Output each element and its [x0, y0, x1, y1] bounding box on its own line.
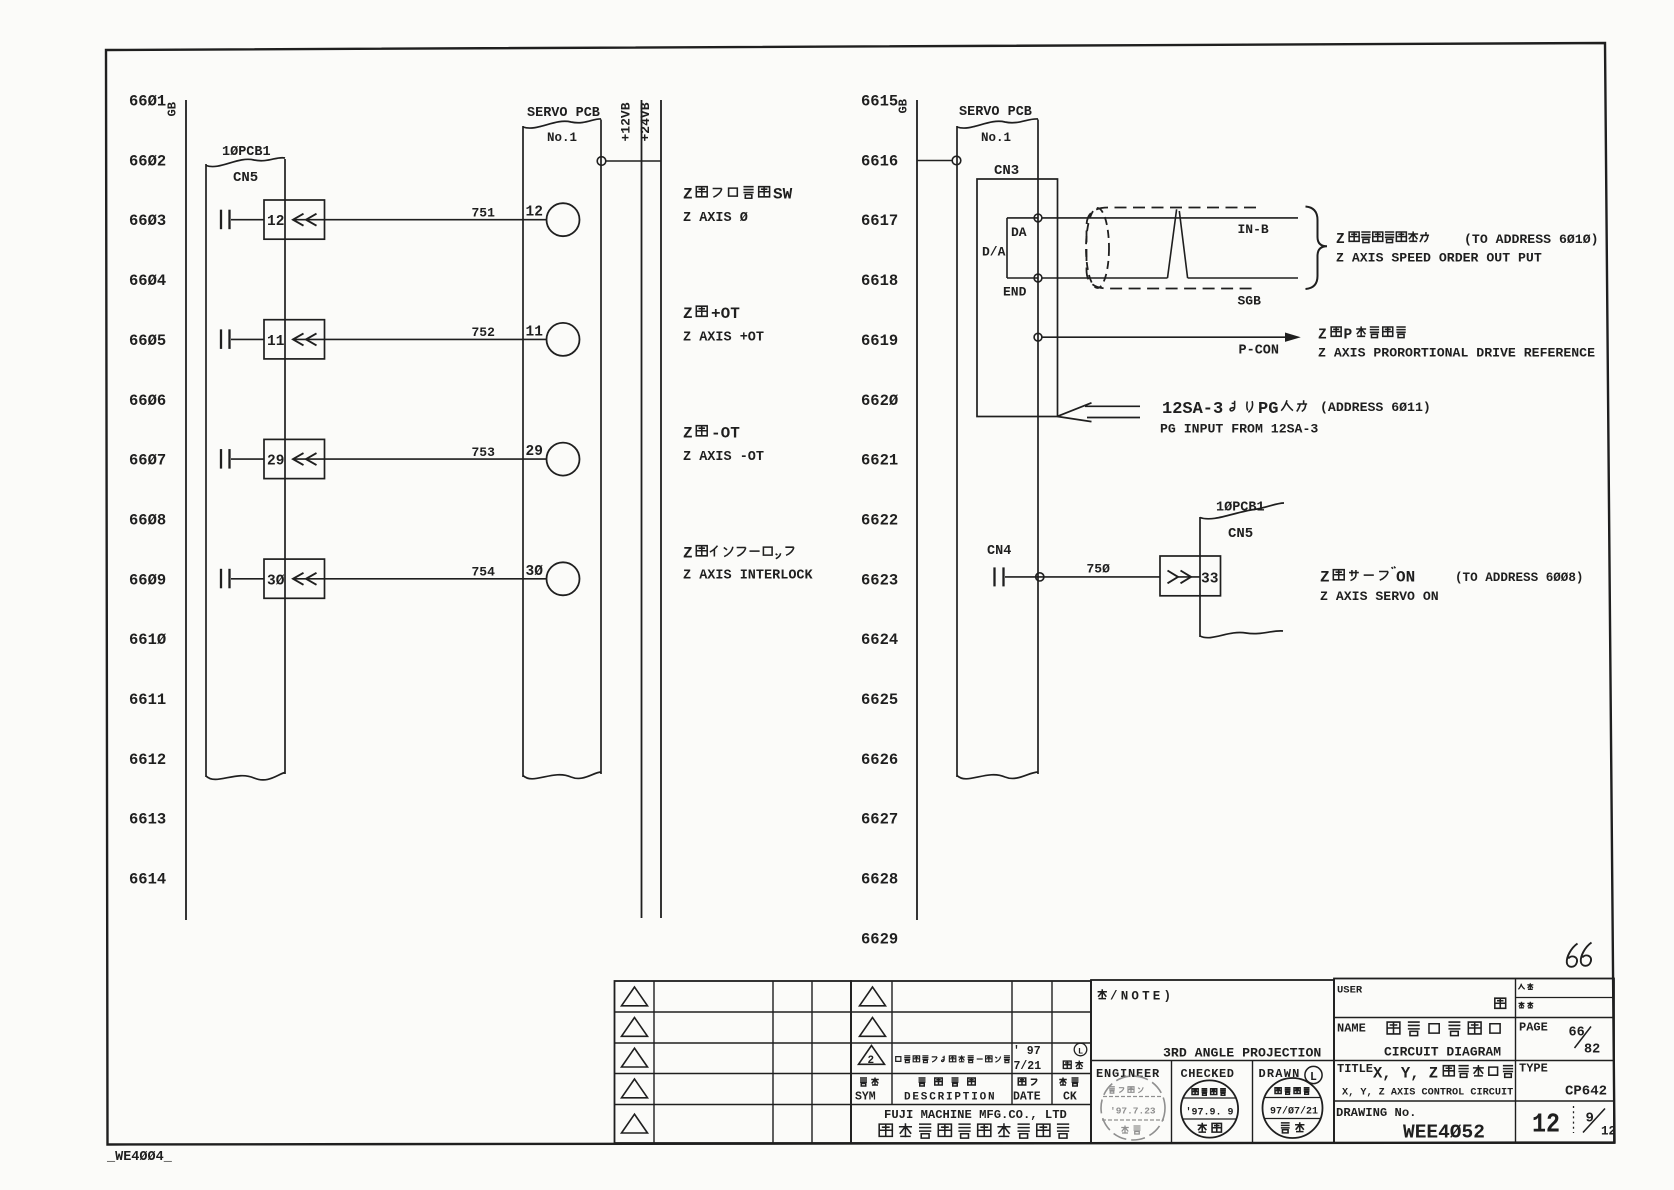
- wire GB bus right: [916, 100, 918, 920]
- svg-text:752: 752: [472, 325, 496, 340]
- sender box pin 33 on CN5: [1160, 556, 1221, 596]
- contact CN4 (6623): [993, 567, 995, 586]
- pin P-CON (6619): [1034, 333, 1042, 341]
- svg-text:L: L: [1078, 1047, 1083, 1057]
- svg-text:_WE4ØØ4_: _WE4ØØ4_: [106, 1150, 173, 1165]
- wire 753 to servo pcb: [293, 458, 547, 460]
- user / name / title / drawing cells: [1334, 979, 1614, 1144]
- svg-text:L: L: [1310, 1071, 1317, 1084]
- svg-text:PAGE: PAGE: [1519, 1021, 1548, 1035]
- chevron arrows << 751: [293, 214, 317, 226]
- svg-text:END: END: [1003, 285, 1027, 300]
- svg-text:6616: 6616: [861, 152, 898, 170]
- svg-text:CN5: CN5: [233, 170, 258, 186]
- svg-text:Z AXIS INTERLOCK: Z AXIS INTERLOCK: [683, 569, 814, 584]
- servo pcb terminal circle 11: [547, 323, 580, 356]
- svg-text:6612: 6612: [129, 751, 166, 769]
- title block revision table (right): [851, 981, 1091, 1143]
- svg-text:CN5: CN5: [1228, 526, 1253, 542]
- svg-text:+OT: +OT: [711, 305, 740, 323]
- svg-text:3Ø: 3Ø: [526, 564, 544, 580]
- receiver box pin 12 on CN5: [264, 200, 325, 239]
- svg-text:WEE4Ø52: WEE4Ø52: [1403, 1122, 1485, 1144]
- svg-text:6617: 6617: [861, 212, 898, 230]
- wire 752 to servo pcb: [293, 338, 547, 340]
- svg-text:3Ø: 3Ø: [267, 573, 285, 589]
- revision triangle: [622, 1018, 648, 1037]
- svg-text:6614: 6614: [129, 871, 166, 889]
- svg-text:(TO ADDRESS 6ØØ8): (TO ADDRESS 6ØØ8): [1455, 571, 1583, 585]
- node row 6616: [952, 156, 961, 165]
- svg-text:6624: 6624: [861, 631, 898, 649]
- svg-text:(ADDRESS 6Ø11): (ADDRESS 6Ø11): [1320, 400, 1431, 415]
- svg-text:Z AXIS -OT: Z AXIS -OT: [683, 450, 764, 465]
- revision triangle: [622, 987, 648, 1006]
- svg-text:12: 12: [1532, 1111, 1560, 1141]
- svg-text:66Ø5: 66Ø5: [129, 332, 166, 350]
- svg-text:6626: 6626: [861, 751, 898, 769]
- svg-text:6629: 6629: [861, 930, 898, 948]
- svg-text:Z: Z: [1318, 328, 1327, 344]
- revision triangle: [860, 1018, 886, 1037]
- revision triangle 2: [859, 1046, 885, 1065]
- svg-text:No.1: No.1: [981, 131, 1011, 145]
- connector 10PCB1 CN5 box (left): [206, 158, 285, 167]
- svg-text:1ØPCB1: 1ØPCB1: [1216, 501, 1265, 516]
- receiver box pin 11 on CN5: [264, 320, 325, 359]
- svg-text:TYPE: TYPE: [1519, 1062, 1548, 1076]
- approval cells: [1171, 1061, 1173, 1144]
- wire contact to box 752: [231, 338, 264, 340]
- servo pcb terminal circle 29: [547, 443, 580, 476]
- svg-text:TITLE: TITLE: [1337, 1062, 1373, 1076]
- svg-text:6615: 6615: [861, 93, 898, 111]
- servo pcb terminal circle 12: [547, 203, 580, 236]
- svg-text:6622: 6622: [861, 512, 898, 530]
- revision 2 description (kanji small): [896, 1057, 901, 1062]
- revision 2 CK stamp: [1074, 1043, 1087, 1056]
- contact (10PCB1 side) row 6605: [220, 329, 222, 349]
- svg-text:6619: 6619: [861, 332, 898, 350]
- svg-text:D/A: D/A: [982, 245, 1006, 260]
- svg-text:DATE: DATE: [1013, 1091, 1041, 1104]
- svg-text:IN-B: IN-B: [1238, 222, 1269, 237]
- svg-text:6621: 6621: [861, 452, 898, 470]
- wire contact to box 754: [231, 578, 264, 580]
- svg-text:Z AXIS PRORORTIONAL DRIVE REFE: Z AXIS PRORORTIONAL DRIVE REFERENCE: [1318, 346, 1595, 361]
- contact (10PCB1 side) row 6607: [220, 449, 222, 469]
- row header DESCRIPTION: [919, 1078, 926, 1086]
- svg-text:11: 11: [526, 324, 544, 340]
- svg-text:' 97: ' 97: [1013, 1045, 1041, 1058]
- svg-text:6623: 6623: [861, 571, 898, 589]
- wire 750: [1005, 576, 1160, 578]
- svg-text:CP642: CP642: [1565, 1084, 1607, 1100]
- revision triangle: [860, 987, 886, 1006]
- svg-text:X, Y, Z AXIS CONTROL CIRCUIT: X, Y, Z AXIS CONTROL CIRCUIT: [1342, 1088, 1513, 1099]
- stamp DRAWN: [1263, 1078, 1323, 1138]
- svg-text:FUJI MACHINE MFG.CO., LTD: FUJI MACHINE MFG.CO., LTD: [884, 1108, 1067, 1122]
- chevron arrows << 752: [293, 333, 317, 345]
- svg-text:751: 751: [472, 206, 496, 221]
- connector CN3 box: [977, 179, 1058, 417]
- svg-text:-OT: -OT: [711, 425, 740, 443]
- svg-text:2: 2: [868, 1055, 875, 1067]
- line-number column 6601-6614: [129, 93, 166, 889]
- svg-text:6627: 6627: [861, 811, 898, 829]
- svg-text:DA: DA: [1011, 225, 1027, 240]
- title kanji: electric circuit diagram: [1387, 1022, 1400, 1034]
- svg-text:USER: USER: [1337, 985, 1363, 997]
- svg-text:66Ø7: 66Ø7: [129, 452, 166, 470]
- svg-text:CHECKED: CHECKED: [1181, 1067, 1235, 1081]
- svg-text:DRAWING No.: DRAWING No.: [1336, 1106, 1416, 1120]
- receiver box pin 29 on CN5: [264, 439, 325, 478]
- line-number column 6615-6629: [861, 93, 898, 949]
- circled L mark: [1305, 1066, 1322, 1083]
- svg-text:CK: CK: [1063, 1091, 1077, 1104]
- svg-text:X, Y, Z: X, Y, Z: [1373, 1065, 1438, 1083]
- svg-text:6618: 6618: [861, 272, 898, 290]
- pin END (6618): [1034, 274, 1042, 282]
- svg-text:SERVO PCB: SERVO PCB: [527, 106, 600, 121]
- revision triangle: [622, 1048, 648, 1067]
- pin DA (6617): [1034, 214, 1042, 222]
- svg-text:(TO ADDRESS 6Ø1Ø): (TO ADDRESS 6Ø1Ø): [1464, 232, 1599, 247]
- wire contact to box 751: [231, 219, 264, 221]
- svg-text:662Ø: 662Ø: [861, 392, 898, 410]
- wire 6616 from GB to servo pcb: [917, 160, 952, 162]
- wire contact to box 753: [231, 458, 264, 460]
- revision triangle: [622, 1079, 648, 1098]
- svg-text:Z: Z: [1336, 232, 1345, 248]
- svg-text:Z: Z: [683, 545, 693, 563]
- bunban / seiban sub-cells: [1516, 997, 1615, 999]
- svg-text:+24VB: +24VB: [638, 102, 653, 141]
- svg-text:661Ø: 661Ø: [129, 631, 166, 649]
- svg-text:ON: ON: [1396, 569, 1415, 587]
- wire IN-B (6617): [1042, 217, 1298, 219]
- D/A converter box: [1007, 218, 1038, 278]
- svg-text:6613: 6613: [129, 811, 166, 829]
- svg-text:12: 12: [1601, 1125, 1616, 1139]
- svg-text:66Ø4: 66Ø4: [129, 272, 166, 290]
- servo pcb terminal circle 30: [547, 562, 580, 595]
- svg-text:NAME: NAME: [1337, 1022, 1366, 1036]
- svg-text:Z: Z: [1320, 569, 1330, 587]
- wire 751 to servo pcb: [293, 219, 547, 221]
- wire SGB (6618) with pulse: [1042, 277, 1168, 279]
- svg-text:DESCRIPTION: DESCRIPTION: [904, 1092, 996, 1104]
- svg-text:75Ø: 75Ø: [1087, 561, 1111, 576]
- stamp ENGINEER (faded): [1101, 1076, 1165, 1140]
- svg-text:66Ø6: 66Ø6: [129, 392, 166, 410]
- row header CK: [1059, 1078, 1067, 1086]
- shield ellipse dashed: [1086, 208, 1109, 288]
- svg-text:Z AXIS Ø: Z AXIS Ø: [683, 211, 748, 226]
- company name kanji: [879, 1124, 892, 1136]
- svg-text:Z: Z: [683, 305, 693, 323]
- receiver box pin 30 on CN5: [264, 559, 325, 598]
- note label (kanji): [1098, 989, 1107, 999]
- svg-text:Z AXIS SPEED ORDER OUT PUT: Z AXIS SPEED ORDER OUT PUT: [1336, 251, 1542, 266]
- svg-text:6611: 6611: [129, 691, 166, 709]
- svg-text:29: 29: [267, 454, 284, 470]
- shielded cable dashed outline: [1087, 208, 1257, 289]
- chevron arrows << 753: [293, 453, 317, 465]
- svg-text:754: 754: [472, 565, 496, 580]
- contact (10PCB1 side) row 6609: [220, 569, 222, 589]
- svg-text:97/Ø7/21: 97/Ø7/21: [1270, 1106, 1318, 1118]
- wire GB bus left: [185, 100, 187, 920]
- dono kanji: [1495, 998, 1506, 1008]
- stamp CHECKED: [1181, 1080, 1238, 1137]
- svg-text:33: 33: [1201, 571, 1218, 587]
- revision triangle: [622, 1114, 648, 1133]
- svg-text:SYM: SYM: [855, 1091, 876, 1104]
- svg-text:'97.9. 9: '97.9. 9: [1186, 1107, 1234, 1119]
- contact (10PCB1 side) row 6603: [220, 210, 222, 230]
- svg-text:Z AXIS +OT: Z AXIS +OT: [683, 331, 764, 346]
- title block revision table (left, empty): [615, 981, 852, 1143]
- svg-text:66Ø2: 66Ø2: [129, 152, 166, 170]
- wire P-CON with arrow (6619): [1042, 336, 1292, 338]
- svg-text:7/21: 7/21: [1014, 1060, 1042, 1073]
- svg-text:753: 753: [472, 445, 496, 460]
- svg-text:SGB: SGB: [1238, 294, 1262, 309]
- svg-text:66Ø8: 66Ø8: [129, 512, 166, 530]
- svg-text:SERVO PCB: SERVO PCB: [959, 105, 1032, 120]
- svg-text:PG INPUT FROM 12SA-3: PG INPUT FROM 12SA-3: [1160, 422, 1318, 437]
- svg-text:Z AXIS SERVO ON: Z AXIS SERVO ON: [1320, 589, 1439, 604]
- svg-text:No.1: No.1: [547, 131, 577, 145]
- brace for speed order output: [1306, 207, 1328, 290]
- handwritten page number 66: [1567, 944, 1578, 967]
- svg-text:6628: 6628: [861, 871, 898, 889]
- svg-text:P-CON: P-CON: [1239, 344, 1280, 359]
- svg-text:GB: GB: [166, 102, 180, 116]
- svg-text:P: P: [1344, 328, 1353, 344]
- svg-text:12: 12: [267, 214, 284, 230]
- svg-text:1ØPCB1: 1ØPCB1: [222, 145, 271, 160]
- PG input double arrow into CN3: [1085, 405, 1140, 407]
- svg-text:6625: 6625: [861, 691, 898, 709]
- svg-text:66Ø3: 66Ø3: [129, 212, 166, 230]
- svg-text:66Ø1: 66Ø1: [129, 93, 166, 111]
- node on servo edge 6623: [1036, 573, 1044, 581]
- svg-text:11: 11: [267, 334, 285, 350]
- svg-text:/NOTE): /NOTE): [1110, 990, 1174, 1004]
- row header SYM: [860, 1078, 867, 1086]
- svg-text:SW: SW: [773, 186, 793, 204]
- svg-text:29: 29: [526, 444, 543, 460]
- svg-text:ENGINEER: ENGINEER: [1096, 1067, 1160, 1081]
- chevron arrows << 754: [293, 573, 317, 585]
- svg-text:PG: PG: [1258, 400, 1278, 419]
- svg-text:3RD ANGLE PROJECTION: 3RD ANGLE PROJECTION: [1163, 1046, 1321, 1061]
- svg-text:CN3: CN3: [994, 163, 1019, 179]
- svg-text:Z: Z: [683, 425, 693, 443]
- wire 6602 to +24VB: [606, 160, 661, 162]
- svg-text:66Ø9: 66Ø9: [129, 571, 166, 589]
- svg-text:'97.7.23: '97.7.23: [1110, 1106, 1156, 1117]
- wire 754 to servo pcb: [293, 578, 547, 580]
- svg-text:12: 12: [526, 205, 543, 221]
- svg-text:+12VB: +12VB: [619, 102, 634, 141]
- note cell: [1091, 980, 1334, 1143]
- svg-text:CIRCUIT DIAGRAM: CIRCUIT DIAGRAM: [1384, 1045, 1501, 1060]
- svg-text:CN4: CN4: [987, 544, 1011, 559]
- svg-text:82: 82: [1584, 1043, 1600, 1058]
- row header DATE: [1018, 1078, 1026, 1085]
- svg-text:12SA-3: 12SA-3: [1162, 400, 1223, 419]
- svg-text:Z: Z: [683, 186, 693, 204]
- node on servo pcb right edge row 6602: [597, 157, 606, 166]
- svg-text:GB: GB: [897, 99, 911, 113]
